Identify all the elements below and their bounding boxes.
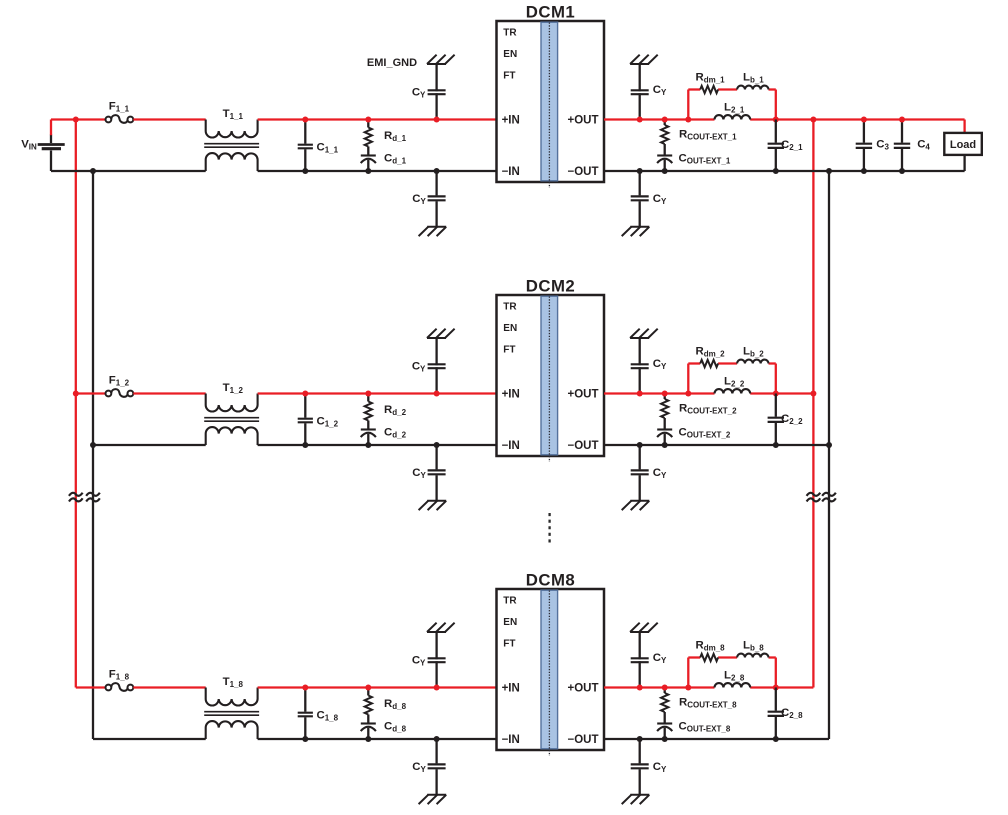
wire load positive drop (963, 120, 965, 133)
inductor L2_2 (715, 389, 751, 393)
wire -OUT row2 (604, 444, 829, 446)
label VIN (21, 139, 37, 152)
label Lb_1 (743, 72, 764, 85)
label COUT-EXT_2 (679, 426, 731, 439)
label CY input top row2 (412, 361, 426, 374)
common-mode choke T1_1 (204, 120, 259, 172)
capacitor COUT-EXT_1 (657, 144, 672, 171)
node C1_2 top (302, 391, 308, 397)
node C1_8 bottom (302, 736, 308, 742)
svg-text:F1_8: F1_8 (109, 669, 130, 682)
wire right red bus vertical (812, 120, 814, 688)
wire row1 input return from VIN to choke (51, 170, 206, 172)
node branch right row2 (773, 391, 779, 397)
break mark left red bus (69, 493, 83, 502)
svg-text:Lb_2: Lb_2 (743, 346, 764, 359)
node branch right row8 (773, 685, 779, 691)
node output CY bottom row8 (637, 736, 643, 742)
chassis ground below input CY row1 (419, 227, 447, 236)
wire +OUT row2 (604, 392, 813, 394)
DCM module DCM1 (497, 3, 605, 189)
svg-text:F1_2: F1_2 (109, 375, 130, 388)
node branch right row1 (773, 117, 779, 123)
label C1_2 (317, 416, 339, 429)
node RCOUT-EXT_8 top (662, 685, 668, 691)
svg-text:EN: EN (503, 617, 517, 628)
svg-text:+IN: +IN (502, 682, 520, 694)
node output CY top row8 (637, 685, 643, 691)
node row2 return bus junction (90, 442, 96, 448)
node RCOUT-EXT_2 top (662, 391, 668, 397)
resistor RCOUT-EXT_2 (661, 394, 668, 419)
label CY input bottom row1 (412, 193, 426, 206)
capacitor C1_8 (298, 688, 313, 740)
node Cd_2 bottom (365, 442, 371, 448)
capacitor CY output bottom row8 (631, 739, 649, 795)
wire fuse to choke T1_2 (133, 392, 205, 394)
svg-text:F1_1: F1_1 (109, 101, 130, 114)
svg-text:CY: CY (653, 84, 667, 97)
node C3 top (861, 117, 867, 123)
capacitor CY output top row1 (631, 64, 649, 120)
chassis ground below input CY row8 (419, 795, 447, 804)
wire +OUT row1 (604, 118, 965, 120)
label RCOUT-EXT_8 (679, 697, 737, 710)
label CY output top row2 (653, 358, 667, 371)
svg-text:−OUT: −OUT (568, 440, 599, 452)
svg-text:CY: CY (412, 655, 426, 668)
chassis ground above output CY row8 (630, 623, 658, 632)
label COUT-EXT_8 (679, 720, 731, 733)
label Cd_1 (384, 153, 407, 166)
svg-text:CY: CY (412, 467, 426, 480)
svg-text:L2_2: L2_2 (724, 376, 745, 389)
node right red bus row1 (810, 117, 816, 123)
svg-text:COUT-EXT_2: COUT-EXT_2 (679, 426, 731, 439)
node output CY bottom row1 (637, 168, 643, 174)
svg-text:FT: FT (503, 639, 515, 650)
label L2_1 (724, 102, 745, 115)
wire -OUT row1 (604, 170, 965, 172)
capacitor C3 (856, 120, 872, 172)
node right black bus row2 (826, 442, 832, 448)
inductor Lb_1 (737, 86, 768, 90)
capacitor CY output top row8 (631, 632, 649, 688)
label Rd_1 (384, 130, 407, 143)
node Cd_1 bottom (365, 168, 371, 174)
node branch left row2 (685, 391, 691, 397)
resistor Rd_8 (365, 688, 372, 715)
label CY output bottom row8 (653, 761, 667, 774)
svg-text:Rdm_8: Rdm_8 (696, 640, 726, 653)
node branch left row1 (685, 117, 691, 123)
node C1_8 top (302, 685, 308, 691)
capacitor CY input bottom row1 (428, 171, 446, 227)
svg-text:Rd_1: Rd_1 (384, 130, 407, 143)
svg-text:TR: TR (503, 596, 517, 607)
label Rdm_2 (696, 346, 726, 359)
node input CY top row8 (434, 685, 440, 691)
capacitor COUT-EXT_2 (657, 418, 672, 445)
chassis ground below output CY row2 (622, 501, 650, 510)
node C4 top (899, 117, 905, 123)
svg-text:−IN: −IN (502, 440, 520, 452)
node input CY bottom row8 (434, 736, 440, 742)
svg-text:T1_1: T1_1 (223, 108, 244, 121)
fuse F1_2 (106, 389, 134, 397)
label RCOUT-EXT_2 (679, 403, 737, 416)
svg-text:Rdm_2: Rdm_2 (696, 346, 726, 359)
label CY input top row8 (412, 655, 426, 668)
label COUT-EXT_1 (679, 152, 731, 165)
svg-text:DCM8: DCM8 (526, 571, 576, 590)
label Rdm_8 (696, 640, 726, 653)
svg-text:RCOUT-EXT_2: RCOUT-EXT_2 (679, 403, 737, 416)
label C4 (917, 139, 930, 152)
wire left black bus vertical (92, 171, 94, 739)
chassis ground below output CY row8 (622, 795, 650, 804)
node Rd_8 top (365, 685, 371, 691)
svg-text:+OUT: +OUT (568, 682, 599, 694)
svg-text:RCOUT-EXT_8: RCOUT-EXT_8 (679, 697, 737, 710)
svg-text:C2_1: C2_1 (781, 139, 803, 152)
capacitor Cd_8 (361, 715, 376, 740)
svg-text:CY: CY (653, 193, 667, 206)
node branch left row8 (685, 685, 691, 691)
label CY output top row1 (653, 84, 667, 97)
node C1_1 top (302, 117, 308, 123)
label CY output bottom row1 (653, 193, 667, 206)
label L2_2 (724, 376, 745, 389)
capacitor C1_1 (298, 120, 313, 172)
svg-text:Lb_1: Lb_1 (743, 72, 764, 85)
svg-text:L2_8: L2_8 (724, 670, 745, 683)
node output CY bottom row2 (637, 442, 643, 448)
label C3 (876, 139, 889, 152)
svg-text:CY: CY (653, 467, 667, 480)
node C2_2 bottom (773, 442, 779, 448)
node input CY top row2 (434, 391, 440, 397)
label C2_8 (781, 707, 803, 720)
inductor Lb_8 (737, 654, 768, 658)
svg-text:+OUT: +OUT (568, 388, 599, 400)
wire upper branch row2 (688, 364, 776, 394)
common-mode choke T1_8 (204, 688, 259, 740)
svg-text:DCM1: DCM1 (526, 3, 576, 22)
break mark right black bus (822, 493, 836, 502)
wire right black bus vertical (828, 171, 830, 739)
node input CY top row1 (434, 117, 440, 123)
label T1_2 (223, 382, 244, 395)
svg-text:Rdm_1: Rdm_1 (696, 72, 726, 85)
svg-text:FT: FT (503, 71, 515, 82)
label Rdm_1 (696, 72, 726, 85)
wire fuse to choke T1_1 (133, 118, 205, 120)
svg-text:CY: CY (653, 652, 667, 665)
node C3 bottom (861, 168, 867, 174)
svg-text:TR: TR (503, 28, 517, 39)
node row1 input positive bus junction (73, 117, 79, 123)
wire choke to +IN row2 (258, 392, 497, 394)
label Lb_8 (743, 640, 764, 653)
svg-text:CY: CY (412, 193, 426, 206)
wire left red bus vertical (75, 120, 77, 688)
svg-text:CY: CY (653, 761, 667, 774)
wire fuse to choke T1_8 (133, 686, 205, 688)
inductor L2_8 (715, 683, 751, 687)
node COUT-EXT_1 bottom (662, 168, 668, 174)
wire choke to +IN row1 (258, 118, 497, 120)
label Lb_2 (743, 346, 764, 359)
svg-text:−OUT: −OUT (568, 734, 599, 746)
svg-text:+OUT: +OUT (568, 114, 599, 126)
node Cd_8 bottom (365, 736, 371, 742)
svg-text:−IN: −IN (502, 734, 520, 746)
ellipsis between DCM2 and DCM8 (548, 513, 550, 543)
svg-text:C2_2: C2_2 (781, 413, 803, 426)
node row2 positive bus junction (73, 391, 79, 397)
voltage source VIN (38, 135, 65, 172)
svg-text:EN: EN (503, 49, 517, 60)
wire choke to -IN row1 (258, 170, 497, 172)
node C2_1 bottom (773, 168, 779, 174)
node COUT-EXT_8 bottom (662, 736, 668, 742)
svg-text:CY: CY (653, 358, 667, 371)
svg-text:RCOUT-EXT_1: RCOUT-EXT_1 (679, 129, 737, 142)
label CY output bottom row2 (653, 467, 667, 480)
chassis ground above input CY row2 (427, 329, 455, 338)
svg-text:C1_1: C1_1 (317, 142, 339, 155)
label T1_1 (223, 108, 244, 121)
capacitor C4 (894, 120, 910, 172)
svg-text:CY: CY (412, 361, 426, 374)
node right red bus row2 (810, 391, 816, 397)
wire VIN positive stub (50, 120, 52, 136)
svg-text:EN: EN (503, 323, 517, 334)
label CY input bottom row8 (412, 761, 426, 774)
label Rd_2 (384, 404, 407, 417)
svg-text:Lb_8: Lb_8 (743, 640, 764, 653)
node right black bus row1 (826, 168, 832, 174)
node row1 input return bus junction (90, 168, 96, 174)
inductor L2_1 (715, 115, 751, 119)
svg-text:DCM2: DCM2 (526, 277, 576, 296)
svg-text:C4: C4 (917, 139, 930, 152)
svg-text:Rd_8: Rd_8 (384, 698, 407, 711)
svg-text:+IN: +IN (502, 114, 520, 126)
node input CY bottom row1 (434, 168, 440, 174)
wire upper branch row1 (688, 90, 776, 120)
capacitor Cd_2 (361, 421, 376, 446)
svg-text:COUT-EXT_1: COUT-EXT_1 (679, 152, 731, 165)
label F1_8 (109, 669, 130, 682)
capacitor Cd_1 (361, 147, 376, 172)
resistor Rdm_1 (700, 86, 718, 93)
wire choke to -IN row2 (258, 444, 497, 446)
node COUT-EXT_2 bottom (662, 442, 668, 448)
capacitor CY input top row8 (428, 632, 446, 688)
label CY input top row1 (412, 87, 426, 100)
label C1_8 (317, 710, 339, 723)
label F1_2 (109, 375, 130, 388)
wire row2 input return from bus to choke (93, 444, 206, 446)
label Cd_2 (384, 427, 407, 440)
chassis ground below input CY row2 (419, 501, 447, 510)
capacitor C2_1 (768, 120, 784, 172)
capacitor CY input top row2 (428, 338, 446, 394)
svg-text:EMI_GND: EMI_GND (367, 57, 417, 69)
break mark left black bus (86, 493, 100, 502)
common-mode choke T1_2 (204, 394, 259, 446)
svg-text:Rd_2: Rd_2 (384, 404, 407, 417)
capacitor CY input bottom row2 (428, 445, 446, 501)
node input CY bottom row2 (434, 442, 440, 448)
resistor Rdm_8 (700, 654, 718, 661)
capacitor C2_2 (768, 394, 784, 446)
label C1_1 (317, 142, 339, 155)
wire choke to +IN row8 (258, 686, 497, 688)
svg-text:COUT-EXT_8: COUT-EXT_8 (679, 720, 731, 733)
label F1_1 (109, 101, 130, 114)
chassis ground above input CY row1 (427, 55, 455, 64)
wire row8 input positive from bus to fuse (76, 686, 106, 688)
svg-text:L2_1: L2_1 (724, 102, 745, 115)
capacitor CY output bottom row2 (631, 445, 649, 501)
wire upper branch row8 (688, 658, 776, 688)
load block (944, 133, 982, 155)
node output CY top row2 (637, 391, 643, 397)
svg-text:C2_8: C2_8 (781, 707, 803, 720)
svg-text:Cd_1: Cd_1 (384, 153, 407, 166)
svg-text:FT: FT (503, 345, 515, 356)
svg-text:C3: C3 (876, 139, 889, 152)
label C2_2 (781, 413, 803, 426)
svg-text:−OUT: −OUT (568, 166, 599, 178)
break mark right red bus (807, 493, 821, 502)
svg-text:VIN: VIN (21, 139, 37, 152)
capacitor COUT-EXT_8 (657, 712, 672, 739)
svg-text:TR: TR (503, 302, 517, 313)
wire row8 input return from bus to choke (93, 738, 206, 740)
resistor RCOUT-EXT_1 (661, 120, 668, 145)
svg-text:C1_2: C1_2 (317, 416, 339, 429)
node C1_1 bottom (302, 168, 308, 174)
svg-text:C1_8: C1_8 (317, 710, 339, 723)
svg-text:−IN: −IN (502, 166, 520, 178)
chassis ground above output CY row1 (630, 55, 658, 64)
svg-text:CY: CY (412, 87, 426, 100)
node C4 bottom (899, 168, 905, 174)
resistor Rd_1 (365, 120, 372, 147)
resistor Rd_2 (365, 394, 372, 421)
wire row2 input positive from bus to fuse (76, 392, 106, 394)
fuse F1_1 (106, 115, 134, 123)
chassis ground above input CY row8 (427, 623, 455, 632)
capacitor CY output bottom row1 (631, 171, 649, 227)
svg-text:CY: CY (412, 761, 426, 774)
wire row1 input positive from VIN to fuse (51, 118, 106, 120)
node Rd_2 top (365, 391, 371, 397)
capacitor CY input bottom row8 (428, 739, 446, 795)
node C2_8 bottom (773, 736, 779, 742)
svg-text:Cd_8: Cd_8 (384, 721, 407, 734)
node Rd_1 top (365, 117, 371, 123)
resistor RCOUT-EXT_8 (661, 688, 668, 713)
node RCOUT-EXT_1 top (662, 117, 668, 123)
chassis ground below output CY row1 (622, 227, 650, 236)
label RCOUT-EXT_1 (679, 129, 737, 142)
capacitor C2_8 (768, 688, 784, 740)
label Cd_8 (384, 721, 407, 734)
wire load return drop (963, 155, 965, 171)
svg-text:Cd_2: Cd_2 (384, 427, 407, 440)
svg-text:+IN: +IN (502, 388, 520, 400)
inductor Lb_2 (737, 360, 768, 364)
label CY output top row8 (653, 652, 667, 665)
label C2_1 (781, 139, 803, 152)
capacitor CY output top row2 (631, 338, 649, 394)
capacitor C1_2 (298, 394, 313, 446)
label Rd_8 (384, 698, 407, 711)
svg-text:T1_8: T1_8 (223, 676, 244, 689)
wire +OUT row8 (604, 686, 813, 688)
node output CY top row1 (637, 117, 643, 123)
wire choke to -IN row8 (258, 738, 497, 740)
DCM module DCM8 (497, 571, 605, 757)
node C1_2 bottom (302, 442, 308, 448)
DCM module DCM2 (497, 277, 605, 463)
label L2_8 (724, 670, 745, 683)
label T1_8 (223, 676, 244, 689)
wire -OUT row8 (604, 738, 829, 740)
svg-text:T1_2: T1_2 (223, 382, 244, 395)
resistor Rdm_2 (700, 360, 718, 367)
label CY input bottom row2 (412, 467, 426, 480)
capacitor CY input top row1 (428, 64, 446, 120)
fuse F1_8 (106, 683, 134, 691)
chassis ground above output CY row2 (630, 329, 658, 338)
svg-text:Load: Load (950, 139, 976, 151)
label EMI_GND (367, 57, 417, 69)
